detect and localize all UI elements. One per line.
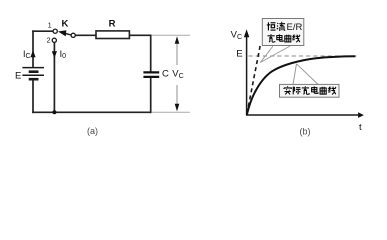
switch K arm [66, 34, 72, 35]
Vc extension line top [152, 34, 190, 36]
callout box1 text line2: 充电曲线 [267, 34, 274, 42]
battery E plate long [22, 74, 44, 76]
dashed constant-current charge line [247, 44, 261, 114]
svg-text:t: t [359, 122, 362, 133]
battery E plate short thick bottom [29, 78, 39, 81]
Vc dimension line lower [176, 85, 178, 105]
wire I0 branch vertical [53, 43, 55, 113]
svg-text:E: E [236, 48, 242, 59]
wire resistor to corner [130, 34, 151, 36]
battery E plate short thick [29, 70, 39, 73]
wire right vertical lower [150, 78, 152, 113]
svg-text:E/R: E/R [287, 22, 303, 33]
wire top-left horizontal [33, 30, 53, 32]
y axis arrowhead [244, 29, 249, 37]
Vc dimension line upper [176, 44, 178, 66]
svg-text:2: 2 [47, 37, 51, 44]
callout box2 text: 实际充电曲线 [284, 86, 291, 94]
junction node [52, 110, 56, 114]
capacitor C plate bottom [143, 76, 159, 78]
wire left vertical lower [32, 80, 34, 112]
current arrow I0 [52, 51, 57, 58]
svg-text:R: R [109, 18, 116, 29]
callout box2 leader lines [293, 64, 318, 85]
capacitor C plate top [143, 71, 159, 73]
wire left vertical upper [32, 31, 34, 67]
x axis arrowhead [358, 112, 364, 118]
actual charging curve [247, 56, 356, 115]
svg-text:(b): (b) [300, 126, 311, 136]
Vc dimension arrowhead top [175, 36, 180, 44]
Vc extension line bottom [152, 111, 190, 113]
svg-text:(a): (a) [87, 126, 98, 136]
switch contact 1 [53, 29, 57, 33]
wire bottom horizontal [33, 111, 151, 113]
y axis [246, 37, 248, 116]
resistor R box [96, 31, 129, 39]
dashed E level line [249, 55, 358, 57]
callout box2 frame [280, 84, 340, 97]
switch K arm arrowhead [58, 30, 66, 36]
x axis [246, 114, 359, 116]
wire pivot to resistor [76, 34, 96, 36]
current arrow Ic [30, 50, 35, 57]
switch K pivot [71, 33, 75, 37]
svg-text:E: E [15, 71, 21, 82]
Vc dimension arrowhead bottom [175, 104, 180, 112]
battery E plate long top [22, 67, 44, 69]
callout box1 text line1: 恒流E/R [267, 22, 276, 30]
callout box1 leader lines [260, 46, 290, 63]
svg-text:C: C [162, 69, 169, 80]
callout box1 frame [262, 19, 304, 46]
switch contact 2 [52, 38, 56, 42]
wire right vertical upper [150, 35, 152, 71]
svg-text:K: K [62, 19, 69, 30]
svg-text:1: 1 [48, 22, 52, 29]
